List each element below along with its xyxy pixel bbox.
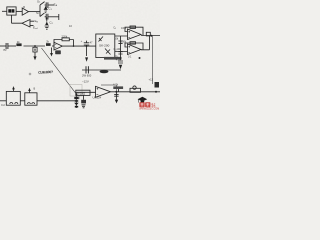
svg-text:SK-200: SK-200 xyxy=(99,44,110,48)
svg-text:C₄10k: C₄10k xyxy=(114,47,122,51)
svg-text:C₃: C₃ xyxy=(113,27,116,30)
svg-text:CUM 600?: CUM 600? xyxy=(38,70,53,75)
svg-text:1 8Ω: 1 8Ω xyxy=(75,96,80,99)
svg-text:UM324: UM324 xyxy=(93,95,102,99)
svg-text:WWW.DZSC.COM: WWW.DZSC.COM xyxy=(139,109,159,110)
svg-text:SY2002: SY2002 xyxy=(77,91,86,95)
svg-text:Cd: Cd xyxy=(1,103,5,107)
svg-text:4.7k: 4.7k xyxy=(116,57,122,61)
svg-text:–12V: –12V xyxy=(82,80,89,84)
svg-text:220k: 220k xyxy=(62,35,68,39)
svg-text:10k: 10k xyxy=(114,37,119,41)
svg-text:2W 600: 2W 600 xyxy=(82,74,92,78)
svg-text:7R: 7R xyxy=(3,48,7,52)
svg-text:100k: 100k xyxy=(121,27,127,30)
svg-text:+12: +12 xyxy=(149,78,154,82)
svg-text:4.7k: 4.7k xyxy=(113,82,119,86)
svg-text:100k: 100k xyxy=(121,40,127,43)
